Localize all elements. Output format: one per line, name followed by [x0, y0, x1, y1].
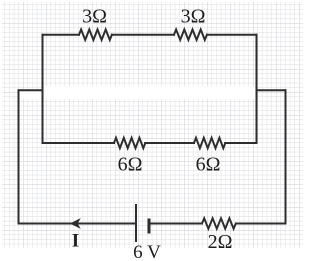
wire left jog at node: [19, 89, 43, 91]
resistor R2 3ohm zigzag: [174, 30, 207, 40]
svg-text:3Ω: 3Ω: [181, 6, 206, 28]
resistor R5 2ohm zigzag: [202, 218, 236, 228]
resistor R3 6ohm zigzag: [114, 138, 145, 148]
wire: top branch with two 3-ohm resistors: [19, 30, 286, 229]
wire left outer vertical: [18, 90, 20, 223]
wire top-left horizontal: [43, 34, 80, 36]
svg-text:6Ω: 6Ω: [118, 154, 143, 176]
wire bottom left to battery: [19, 223, 137, 225]
svg-text:3Ω: 3Ω: [82, 6, 107, 28]
svg-text:6 V: 6 V: [133, 242, 161, 261]
current arrow I: [71, 219, 88, 227]
wire bottom right: [236, 223, 286, 225]
resistor R4 6ohm zigzag: [194, 138, 225, 148]
wire 6ohm branch middle horizontal: [145, 142, 194, 144]
svg-text:6Ω: 6Ω: [196, 154, 221, 176]
svg-text:I: I: [72, 232, 79, 252]
wire top-right horizontal: [207, 34, 257, 36]
wire 6ohm branch right horizontal: [225, 142, 256, 144]
wire right vertical between branches: [256, 35, 258, 143]
wire battery to 2ohm resistor: [149, 223, 202, 225]
svg-text:2Ω: 2Ω: [208, 231, 233, 253]
wire left vertical between branches: [42, 35, 44, 143]
wire right outer vertical: [285, 90, 287, 223]
wire right jog at node: [257, 89, 286, 91]
resistor R1 3ohm zigzag: [79, 30, 112, 40]
wire 6ohm branch left horizontal: [43, 142, 115, 144]
battery B1 short plate: [148, 219, 151, 234]
battery B1 long plate: [135, 204, 137, 242]
wire top-middle horizontal: [112, 34, 174, 36]
